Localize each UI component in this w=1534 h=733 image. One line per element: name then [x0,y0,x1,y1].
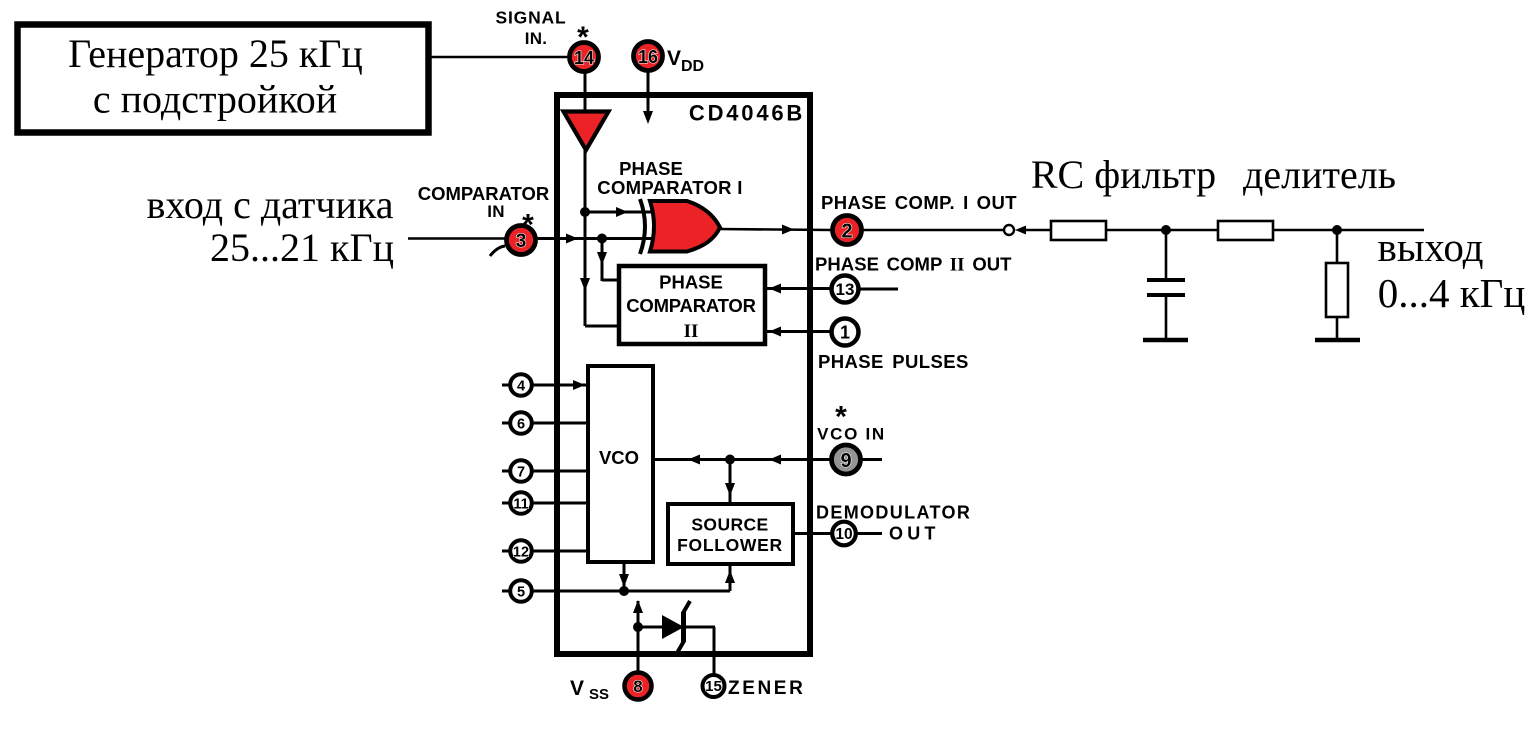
svg-text:IN: IN [487,202,505,221]
svg-text:DEMODULATOR: DEMODULATOR [816,503,971,523]
svg-text:3: 3 [516,231,527,252]
svg-text:VCO IN: VCO IN [817,425,886,444]
svg-text:делитель: делитель [1243,152,1396,197]
svg-text:PHASE COMP II OUT: PHASE COMP II OUT [815,254,1012,276]
svg-text:с подстройкой: с подстройкой [93,77,337,122]
svg-text:10: 10 [835,526,852,543]
svg-text:Генератор 25 кГц: Генератор 25 кГц [68,31,363,76]
svg-text:вход с датчика: вход с датчика [147,182,394,227]
svg-text:PHASE COMP. I OUT: PHASE COMP. I OUT [821,192,1017,213]
svg-text:ZENER: ZENER [728,678,805,699]
svg-text:VCO: VCO [599,447,639,468]
svg-text:15: 15 [705,678,722,695]
svg-text:9: 9 [840,450,851,472]
svg-text:CD4046B: CD4046B [689,101,805,126]
svg-text:PHASE: PHASE [659,272,723,293]
svg-text:II: II [684,321,699,342]
svg-text:4: 4 [517,379,525,395]
svg-text:SS: SS [589,686,609,703]
svg-text:7: 7 [517,465,525,481]
svg-text:13: 13 [836,280,855,299]
svg-text:2: 2 [841,221,852,243]
svg-text:COMPARATOR: COMPARATOR [418,183,550,204]
svg-text:PHASE PULSES: PHASE PULSES [818,351,969,372]
svg-text:0...4 кГц: 0...4 кГц [1378,270,1526,316]
svg-text:COMPARATOR: COMPARATOR [626,295,756,316]
svg-text:OUT: OUT [889,524,940,544]
svg-text:25...21 кГц: 25...21 кГц [210,225,394,270]
svg-text:1: 1 [840,323,850,343]
svg-text:выход: выход [1377,224,1483,270]
svg-text:SIGNAL: SIGNAL [496,8,567,28]
svg-text:V: V [667,47,681,70]
svg-text:14: 14 [574,48,594,68]
svg-text:16: 16 [638,47,658,67]
svg-text:COMPARATOR I: COMPARATOR I [597,177,742,198]
svg-text:PHASE: PHASE [619,158,683,179]
svg-text:11: 11 [513,497,528,513]
svg-text:RC фильтр: RC фильтр [1031,152,1216,197]
svg-text:5: 5 [517,585,525,601]
svg-text:IN.: IN. [525,29,548,48]
svg-text:8: 8 [633,677,642,696]
svg-text:SOURCE: SOURCE [691,515,768,535]
svg-text:DD: DD [681,58,704,75]
svg-text:V: V [570,677,584,700]
svg-text:FOLLOWER: FOLLOWER [677,535,783,555]
svg-text:6: 6 [517,417,525,433]
svg-text:12: 12 [513,545,529,561]
